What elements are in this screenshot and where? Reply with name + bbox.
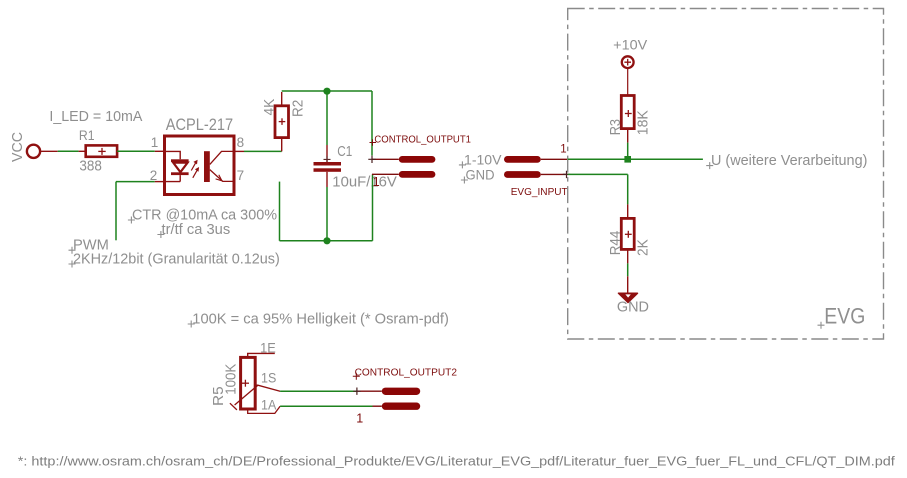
wire GND net inside EVG bbox=[568, 174, 628, 218]
wire opto pin8 to R2 bbox=[234, 138, 282, 152]
resistor R3 bbox=[621, 96, 634, 129]
net label 1-10V bbox=[459, 151, 502, 168]
svg-text:R2: R2 bbox=[290, 100, 307, 117]
svg-text:CONTROL_OUTPUT2: CONTROL_OUTPUT2 bbox=[355, 367, 458, 379]
light arrows inside optocoupler U1 bbox=[191, 160, 199, 178]
resistor R1 bbox=[86, 145, 117, 156]
node junction EVG bbox=[624, 156, 631, 163]
svg-text:10uF/16V: 10uF/16V bbox=[332, 173, 397, 190]
wire 1-10V rail inside EVG bbox=[568, 158, 703, 160]
potentiometer R5 bbox=[241, 357, 256, 409]
svg-text:ACPL-217: ACPL-217 bbox=[166, 116, 233, 134]
phototransistor inside optocoupler U1 bbox=[204, 151, 234, 182]
connector CONTROL_OUTPUT2 label bbox=[353, 367, 457, 380]
ground symbol bbox=[619, 293, 638, 302]
resistor R44 bbox=[621, 218, 634, 249]
svg-text:GND: GND bbox=[617, 299, 649, 315]
svg-text:CONTROL_OUTPUT1: CONTROL_OUTPUT1 bbox=[374, 135, 471, 146]
wire R44 to GND bbox=[627, 249, 629, 294]
svg-text:I_LED = 10mA: I_LED = 10mA bbox=[49, 108, 142, 125]
svg-text:1: 1 bbox=[560, 143, 566, 155]
wire PWM net to opto pin2 bbox=[116, 182, 165, 241]
net label U (weitere Verarbeitung) bbox=[706, 152, 867, 169]
node VCC terminal circle bbox=[27, 145, 40, 158]
svg-text:7: 7 bbox=[237, 168, 245, 183]
svg-text:R44: R44 bbox=[607, 231, 624, 256]
svg-text:C1: C1 bbox=[337, 143, 352, 160]
svg-text:GND: GND bbox=[466, 166, 495, 182]
label EVG bbox=[818, 304, 866, 329]
wire C1 top drop bbox=[324, 91, 331, 163]
svg-text:1: 1 bbox=[356, 412, 363, 426]
annotation 100K helligkeit bbox=[188, 310, 449, 327]
svg-text:R1: R1 bbox=[79, 128, 95, 143]
svg-text:2: 2 bbox=[150, 168, 158, 183]
svg-text:4K: 4K bbox=[261, 99, 278, 116]
pin 1E bbox=[248, 341, 276, 358]
svg-text:VCC: VCC bbox=[9, 132, 26, 162]
wire R3 bottom to junction bbox=[627, 129, 629, 160]
svg-text:R3: R3 bbox=[607, 119, 624, 135]
svg-text:1S: 1S bbox=[261, 370, 276, 385]
wiper arrow R5 bbox=[230, 385, 258, 410]
wire VCC to R1 bbox=[41, 150, 86, 152]
svg-text:2KHz/12bit (Granularität 0.12u: 2KHz/12bit (Granularität 0.12us) bbox=[73, 250, 280, 267]
connector EVG_INPUT pads bbox=[504, 156, 570, 178]
wire right vertical upper bbox=[371, 91, 373, 156]
svg-text:R5: R5 bbox=[210, 386, 227, 406]
annotation tr/tf ca 3us bbox=[157, 221, 230, 238]
wire 1A to pad bbox=[280, 405, 382, 407]
annotation CTR @10mA ca 300% bbox=[128, 206, 277, 223]
svg-text:1-10V: 1-10V bbox=[464, 151, 502, 167]
EVG dashed box bbox=[568, 9, 884, 340]
svg-text:1: 1 bbox=[373, 175, 380, 189]
wire 1S to pad bbox=[280, 388, 382, 395]
svg-text:2K: 2K bbox=[635, 239, 652, 256]
capacitor C1 bbox=[314, 162, 342, 241]
net label GND bbox=[461, 166, 495, 183]
svg-text:+10V: +10V bbox=[613, 36, 648, 52]
svg-text:1: 1 bbox=[151, 135, 159, 150]
connector CONTROL_OUTPUT1 label bbox=[370, 135, 472, 146]
wire right vertical lower bbox=[372, 174, 374, 241]
svg-text:tr/tf ca 3us: tr/tf ca 3us bbox=[162, 221, 231, 238]
wire R1 to opto pin1 bbox=[117, 150, 164, 152]
node junction bottom bbox=[323, 237, 330, 244]
resistor R2 bbox=[275, 92, 289, 138]
connector CONTROL_OUTPUT2 pads bbox=[382, 388, 420, 410]
pin row2 left connector bbox=[372, 171, 435, 189]
svg-text:388: 388 bbox=[79, 158, 102, 175]
svg-text:U (weitere Verarbeitung): U (weitere Verarbeitung) bbox=[711, 152, 867, 169]
annotation I_LED = 10mA bbox=[49, 108, 142, 125]
optocoupler U1 ACPL-217 box bbox=[165, 136, 235, 195]
svg-text:8: 8 bbox=[237, 135, 245, 150]
pin 1S bbox=[255, 370, 280, 391]
net label PWM bbox=[69, 236, 109, 253]
wire pin7 down bbox=[279, 182, 281, 241]
LED inside optocoupler U1 bbox=[165, 151, 189, 181]
svg-text:EVG: EVG bbox=[824, 304, 865, 329]
svg-text:1E: 1E bbox=[260, 341, 276, 356]
pin 1A bbox=[248, 398, 280, 414]
pin row1 left connector bbox=[368, 156, 435, 163]
supply +10V bbox=[613, 36, 648, 95]
annotation 2KHz/12bit bbox=[69, 250, 280, 267]
wire bottom rail bbox=[280, 240, 373, 242]
svg-text:*: http://www.osram.ch/osram_c: *: http://www.osram.ch/osram_ch/DE/Profe… bbox=[18, 455, 896, 469]
svg-text:1A: 1A bbox=[261, 398, 276, 413]
svg-text:EVG_INPUT: EVG_INPUT bbox=[511, 186, 569, 198]
svg-text:100K = ca 95% Helligkeit (* Os: 100K = ca 95% Helligkeit (* Osram-pdf) bbox=[192, 310, 449, 327]
wire top rail bbox=[282, 90, 372, 92]
node junction top bbox=[323, 88, 330, 95]
svg-text:18K: 18K bbox=[635, 110, 652, 135]
